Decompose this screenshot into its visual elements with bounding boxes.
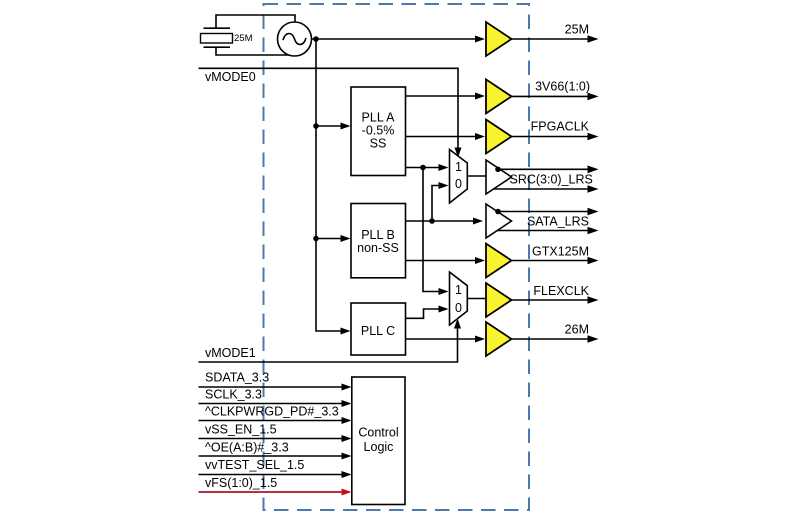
wire PLL C out1 to mux2 input 0 <box>406 309 439 318</box>
svg-text:vSS_EN_1.5: vSS_EN_1.5 <box>205 423 277 437</box>
wire mux1 output to SRC buffer <box>467 175 487 177</box>
wire vSS_EN_1.5 <box>199 438 342 440</box>
svg-text:^OE(A:B)#_3.3: ^OE(A:B)#_3.3 <box>205 441 289 455</box>
node PLL B out1 branch <box>429 218 435 224</box>
node trunk to PLL B <box>313 236 319 242</box>
node SRC out junction <box>495 167 501 173</box>
svg-text:1: 1 <box>455 160 462 174</box>
svg-text:PLL B: PLL B <box>361 228 395 242</box>
wire ^OE(A:B)#_3.3 <box>199 455 342 457</box>
wire crystal bottom loop <box>216 47 295 55</box>
node SATA out junction <box>495 209 501 215</box>
mux2 <box>450 272 468 325</box>
wire osc to 25M buffer <box>312 38 476 40</box>
wire trunk to PLL A <box>316 125 341 127</box>
svg-text:vvTEST_SEL_1.5: vvTEST_SEL_1.5 <box>205 458 304 472</box>
svg-text:SCLK_3.3: SCLK_3.3 <box>205 388 262 402</box>
svg-text:non-SS: non-SS <box>357 241 399 255</box>
buffer GTX125M <box>486 244 512 278</box>
wire branch up to mux1 input 0 <box>432 186 439 222</box>
node trunk to PLL A <box>313 123 319 129</box>
buffer FPGACLK <box>486 120 512 154</box>
buffer 25M <box>486 22 512 56</box>
svg-text:SS: SS <box>370 137 387 151</box>
wire PLL A out1 to 3V66 buffer <box>406 95 476 97</box>
svg-text:25M: 25M <box>234 33 253 44</box>
buffer SATA white <box>486 204 512 238</box>
wire 26M output <box>512 338 588 340</box>
wire branch down to mux2 input 1 <box>423 168 439 292</box>
wire SDATA_3.3 <box>199 386 342 388</box>
mux1 <box>450 150 468 204</box>
svg-text:vMODE1: vMODE1 <box>205 346 256 360</box>
svg-text:25M: 25M <box>565 23 589 37</box>
svg-text:0: 0 <box>455 301 462 315</box>
wire SATA output pair <box>495 211 588 213</box>
svg-text:0: 0 <box>455 177 462 191</box>
svg-text:PLL C: PLL C <box>361 324 395 338</box>
svg-text:Control: Control <box>358 426 398 440</box>
wire 3V66 output <box>512 95 588 97</box>
svg-text:vFS(1:0)_1.5: vFS(1:0)_1.5 <box>205 476 277 490</box>
wire PLL B out1 to SATA buffer <box>406 220 474 222</box>
PLL A U1 <box>351 87 406 176</box>
buffer 26M <box>486 322 512 356</box>
wire vvTEST_SEL_1.5 <box>199 474 342 476</box>
wire trunk vertical <box>316 39 341 331</box>
crystal Y1 body <box>201 34 233 44</box>
wire crystal top loop <box>216 15 295 28</box>
wire 25M output <box>512 38 588 40</box>
node PLL A out3 branch <box>420 165 426 171</box>
buffer SRC white <box>486 160 512 194</box>
oscillator <box>278 22 312 56</box>
wire GTX125M output <box>512 260 588 262</box>
wire FLEXCLK output <box>512 299 588 301</box>
svg-text:Logic: Logic <box>364 440 394 454</box>
svg-text:PLL A: PLL A <box>362 111 396 125</box>
svg-text:1: 1 <box>455 283 462 297</box>
wire ^CLKPWRGD_PD#_3.3 <box>199 420 342 422</box>
wire PLL C out2 to 26M buffer <box>406 338 476 340</box>
wire mux2 output to FLEXCLK buffer <box>467 298 487 300</box>
svg-text:-0.5%: -0.5% <box>362 124 395 138</box>
svg-text:vMODE0: vMODE0 <box>205 70 256 84</box>
PLL C U3 <box>351 303 406 355</box>
control logic U4 <box>352 377 405 505</box>
node osc output junction <box>313 36 319 42</box>
svg-text:FLEXCLK: FLEXCLK <box>533 284 589 298</box>
crystal Y1 plates <box>204 28 231 47</box>
wire FPGACLK output <box>512 136 588 138</box>
chip boundary dashed box <box>264 4 530 510</box>
wire vMODE1 to mux2 select <box>199 329 458 363</box>
wire SCLK_3.3 <box>199 403 342 405</box>
svg-text:FPGACLK: FPGACLK <box>531 120 590 134</box>
svg-text:GTX125M: GTX125M <box>532 245 589 259</box>
svg-text:SATA_LRS: SATA_LRS <box>527 215 589 229</box>
svg-text:SDATA_3.3: SDATA_3.3 <box>205 371 269 385</box>
svg-text:SRC(3:0)_LRS: SRC(3:0)_LRS <box>510 173 593 187</box>
wire PLL B out2 to GTX buffer <box>406 260 476 262</box>
buffer FLEXCLK <box>486 283 512 317</box>
PLL B U2 <box>351 204 406 278</box>
wire vFS(1:0)_1.5 red <box>199 491 342 493</box>
wire PLL A out3 to mux1 input 1 <box>406 167 439 169</box>
svg-text:^CLKPWRGD_PD#_3.3: ^CLKPWRGD_PD#_3.3 <box>205 405 339 419</box>
wire SRC output pair <box>495 168 588 170</box>
wire PLL A out2 to FPGACLK buffer <box>406 136 476 138</box>
svg-text:3V66(1:0): 3V66(1:0) <box>535 80 590 94</box>
wire trunk to PLL B <box>316 238 341 240</box>
buffer 3V66 <box>486 79 512 113</box>
wire vMODE0 to mux1 select <box>199 68 459 147</box>
svg-text:26M: 26M <box>565 323 589 337</box>
